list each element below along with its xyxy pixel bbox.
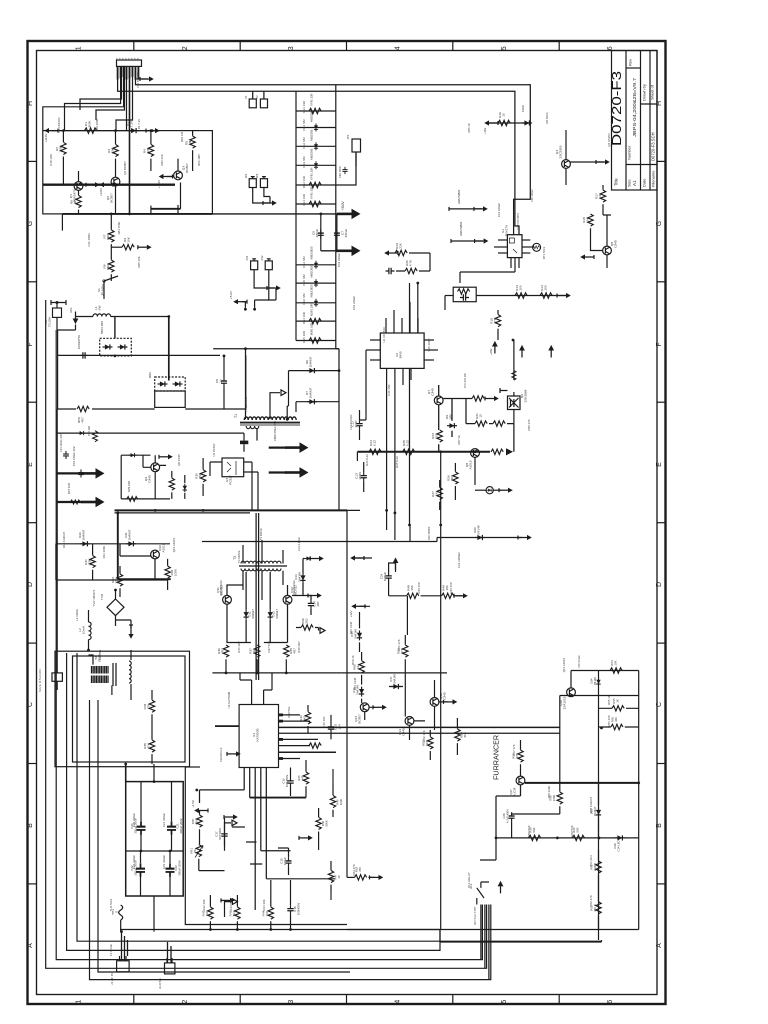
label TH1 [111,909,119,915]
label Q15 [439,692,447,700]
wire cn3 net [269,270,276,300]
title block divider 2 [640,51,642,191]
resistor R31 [90,556,95,568]
wire out sec box [185,766,200,768]
label D1 [126,120,134,127]
label R31 [84,557,92,565]
resistor R47 [328,870,333,882]
svg-text:D15 4148: D15 4148 [349,621,353,634]
capacitor C13 [361,472,367,481]
svg-text:C14 LED: C14 LED [616,840,620,851]
svg-text:A1: A1 [632,180,637,186]
wire l1 leads [76,316,169,318]
capacitor CX inline [80,352,89,358]
connector CN5 body [52,673,62,681]
svg-text:SW: SW [98,305,102,310]
svg-text:R59 56K: R59 56K [527,825,531,836]
label out34 [273,420,277,441]
wire left drop to stby [56,409,58,660]
svg-text:22K: 22K [399,242,403,248]
label CN5 line1 [38,669,42,692]
diode D18 v [596,808,601,818]
transformer T2 primary hatch [92,666,109,683]
wire vr1 leads [199,811,225,871]
svg-text:Filename: Filename [651,170,656,187]
label R55 [612,698,619,704]
connector CN1 pins [117,66,140,79]
label flag q3 [157,180,161,188]
resistor NTC inline [77,406,89,411]
svg-text:R31 100K: R31 100K [102,546,106,559]
wire fuse to flag [57,317,76,355]
label out2 [67,483,71,494]
capacitor C20 big [137,821,146,835]
svg-text:A682O85: A682O85 [310,110,314,122]
diode D6 [307,368,317,373]
title block size value A1 [632,180,637,186]
svg-text:100: 100 [519,285,523,290]
node t1 aux blob [240,441,248,445]
svg-text:Q4 C5353: Q4 C5353 [607,133,611,147]
label R18 [582,216,590,223]
svg-text:R42 10K: R42 10K [202,899,206,910]
label D10 [78,529,86,540]
wire U4 left pin thick [215,725,239,727]
wire d7 wire [296,402,339,412]
svg-text:T1 EER4042: T1 EER4042 [244,397,248,412]
resistor R19 h [395,250,407,255]
svg-text:RL1 RELAY: RL1 RELAY [467,872,471,887]
diode DL8 rung [314,279,318,287]
wire jp2 net [253,188,270,204]
label C7 [341,229,349,238]
title block label Title [614,178,619,186]
wire lower net [210,880,290,930]
resistor R18 [588,214,593,226]
label R25 [402,440,410,446]
svg-text:E: E [27,462,34,467]
box standby inner [73,656,186,762]
label C24 [380,571,387,581]
wire jp3 net [264,188,270,204]
svg-text:C31 100uF 200V: C31 100uF 200V [59,432,63,452]
bridge BR2 body box [155,391,186,407]
svg-text:+5.0V: +5.0V [229,291,233,299]
wire CN6 pins [122,932,128,961]
resistor R2 [61,142,66,154]
resistor RL6 rung [309,201,321,206]
label D20 [473,525,481,534]
wire s5 net [360,606,376,720]
svg-text:1: 1 [76,46,83,50]
wire long vert A [409,283,411,333]
label Q12 [290,585,298,595]
svg-text:G: G [27,221,34,226]
op-amp U2 PWM body [380,333,424,368]
wire fur link [496,785,521,838]
power flag q15 [444,699,458,704]
power flag q2 [99,182,113,187]
power flag q5 base [580,254,594,259]
label R45 [336,799,343,806]
label D8 [521,105,525,112]
wire furr net2 [496,783,639,838]
wire furr box verts [571,671,639,941]
label Q10 [158,543,166,552]
svg-text:Q10 A1015: Q10 A1015 [172,537,176,552]
svg-text:CG5 682: CG5 682 [302,274,306,286]
resistor R53 [455,729,460,741]
title block label Sheet of [650,84,655,100]
resistor R51 [403,645,408,657]
title block label Drawn by [642,84,647,101]
text FURRANCER [492,735,501,780]
label R52 [422,739,430,746]
wire r7-r8 [110,244,112,260]
power flag r91 [485,396,499,401]
label Q11 [216,585,224,595]
svg-text:SX7100V: SX7100V [218,828,222,840]
wire bus1 from CN1 [136,66,531,234]
node AC L [56,301,59,304]
capacitor C61 inline [78,469,83,477]
wire q7 net [439,385,452,452]
wire s1 stub [355,557,372,559]
wire ladder rung 4 [296,164,336,166]
label R40 [299,715,307,721]
label U1 [501,225,509,237]
label D6 [305,356,313,367]
svg-text:R62 470: R62 470 [589,895,593,906]
svg-text:D18 1N4937: D18 1N4937 [589,796,593,813]
wire cap col b [336,214,338,251]
svg-text:R80 300K: R80 300K [95,119,99,132]
power flag s3 [454,593,468,598]
label D24 [590,677,597,685]
capacitor C21 big [167,821,176,835]
resistor R34 [149,700,154,712]
svg-text:3843: 3843 [399,351,403,358]
svg-text:+310V: +310V [341,200,345,210]
capacitor C22 big [136,863,145,877]
node tp2 [253,308,256,311]
wire t1 aux bottom [243,444,245,452]
svg-text:470: 470 [358,867,362,872]
inductor L1 4-bump coil [93,314,111,317]
svg-text:0.22: 0.22 [373,440,377,446]
wire th1 down [120,920,122,932]
label C21 [176,818,183,833]
svg-text:P1: P1 [244,95,248,99]
svg-text:10K: 10K [613,660,617,665]
label CN2 [245,255,249,260]
label R26 [447,475,455,481]
wire l2 leads [88,610,90,650]
wire U1 pins left [494,240,507,253]
label Q17 [509,787,516,796]
diode D25 vertical aux [183,484,187,493]
svg-text:C40 100uF: C40 100uF [530,189,534,202]
svg-text:TNY279: TNY279 [505,225,509,237]
wire s2 stub [395,563,397,572]
wire tvr leads [115,590,117,626]
label Q5 [610,240,618,248]
capacitor C30 [342,167,347,174]
label T1 [234,414,238,418]
label CX [77,335,81,349]
capacitor C18 [287,905,293,914]
label D16 [352,685,359,695]
transistor Q12 [283,595,292,604]
wire rail left bend [356,452,358,461]
resistor R35 [149,740,154,752]
thermistor TH1 wiggle [119,905,123,920]
svg-text:4.7uF 450V: 4.7uF 450V [505,809,509,823]
wire bulk bottom drop [153,896,155,932]
label C15 [334,724,342,730]
connector P1 body [249,91,256,108]
svg-text:R29 33R: R29 33R [127,481,131,492]
svg-text:ACL: ACL [69,307,73,313]
svg-text:2: 2 [182,1000,189,1004]
svg-text:100: 100 [544,285,548,290]
diode D17 h [391,684,401,689]
svg-text:R83 1M5: R83 1M5 [197,154,201,166]
power flag jp pair [263,200,277,205]
wire CN1 pin7 drop [116,66,133,130]
power flag vr chain [194,808,208,813]
svg-text:A682O85: A682O85 [310,148,314,160]
power flag tvr [128,625,133,639]
power flag cn2 [267,285,281,290]
op-amp U4 body [239,705,278,768]
zone numbers top [76,46,615,50]
power flag pp1 [310,556,324,561]
label rung 6 [310,186,314,198]
label Q3 [182,163,190,173]
svg-text:C30 100N: C30 100N [338,166,342,178]
label C22 [130,860,137,875]
connector JP3 body [260,177,267,188]
svg-text:Q11 BCR22: Q11 BCR22 [219,580,223,596]
label scatter10 [577,655,581,668]
label R44 [262,910,270,917]
op-amp U1 switcher body [507,235,522,258]
svg-text:C50 470uF: C50 470uF [577,655,581,668]
svg-text:R52 10K: R52 10K [422,730,426,741]
svg-text:R85 10K: R85 10K [137,256,141,267]
label C23 [174,860,181,875]
sheet border inner [37,51,658,995]
power flag out3 thick [285,443,308,452]
resistor Rclamp in box [458,289,470,294]
svg-text:BR2: BR2 [148,372,152,378]
svg-text:47: 47 [73,200,77,204]
wire gate wires [466,410,514,424]
bridge BR2 dashed box [155,377,186,391]
label R7 [103,232,111,240]
svg-text:10: 10 [502,113,506,117]
diode D4 in BR2 [158,381,168,386]
svg-text:CG4 682: CG4 682 [302,256,306,268]
svg-text:1N4937: 1N4937 [593,806,597,816]
zone letters left [27,101,34,948]
label R65 [191,818,198,825]
wire T1 right diode wire [287,371,339,406]
transformer T3 winding bottom [241,569,281,571]
thermistor RT1 [533,243,541,251]
diode D13 [268,610,273,620]
diode DL9 rung [314,299,318,307]
svg-text:Rev: Rev [628,59,633,66]
svg-text:B4148: B4148 [593,677,597,685]
diode D20 inline [475,535,485,540]
transformer T3 core [239,565,287,567]
label scatter7 [427,526,431,540]
label BR1 [100,321,104,334]
svg-text:48V 5mA STBY: 48V 5mA STBY [473,906,477,925]
svg-text:A682 M883: A682 M883 [459,221,463,236]
label D15 [350,629,357,639]
svg-text:470 R: 470 R [593,904,597,911]
wire s6 net [389,635,425,740]
label rung 8 [310,265,314,278]
wire opto links [210,462,258,510]
svg-text:6: 6 [607,1000,614,1004]
svg-text:R36 4R7: R36 4R7 [237,641,241,653]
resistor R30 [200,470,205,482]
resistor R38 [284,645,289,657]
resistor R14 inline [540,293,552,298]
transistor Q17 [516,776,525,785]
title block label Number [627,145,632,160]
label R42 [202,910,210,917]
label pp1 [297,537,301,551]
resistor R55 h [612,706,624,711]
svg-text:C42 220uF: C42 220uF [352,296,356,311]
LED DL1 [486,487,493,494]
svg-text:1M: 1M [188,140,192,145]
svg-text:T3 DRIVE: T3 DRIVE [259,528,263,540]
wire q5 wires [591,215,612,251]
power flag d20 [518,535,532,540]
svg-text:C46 1NF: C46 1NF [387,384,391,396]
svg-text:F06A: F06A [521,105,525,112]
wire out3 tail [269,447,286,449]
label scatter2 [530,189,534,202]
svg-text:A: A [656,943,663,948]
title block label Date [642,178,647,187]
label rung 1 [310,93,314,105]
resistor R16 inline [498,120,510,125]
zone ticks bottom margin [134,995,559,1005]
svg-text:U1 TNY279PN: U1 TNY279PN [516,213,520,230]
wire primary bus thick 2 [115,512,251,514]
resistor R28 [169,478,174,490]
wire CN1 pin8 stub [136,66,148,79]
wire CN1 pin5 drop [126,66,128,130]
svg-text:KY91 33R: KY91 33R [310,186,314,198]
svg-text:B: B [656,823,663,828]
resistor R24 inline rail [369,449,381,454]
svg-text:C600 470uF 25V: C600 470uF 25V [273,420,277,441]
diode D15b inline [305,556,313,560]
power flag neth1 [474,206,488,211]
svg-text:A: A [27,943,34,948]
wire r17 leads [602,185,604,215]
svg-text:D8 F06A: D8 F06A [545,112,549,123]
wire drop from box [61,214,63,231]
label scatter4 [244,397,248,412]
svg-text:R37 560: R37 560 [267,641,271,652]
label R43 [229,910,237,916]
wire ac stubs [51,300,66,308]
svg-text:100N: 100N [358,472,362,479]
power flag aux [159,454,173,459]
svg-text:R63 470: R63 470 [352,864,356,875]
svg-text:JBPS-04,200&28=V9.7: JBPS-04,200&28=V9.7 [632,77,637,137]
resistor R13 inline [515,293,527,298]
svg-text:R43 5K1: R43 5K1 [229,899,233,911]
svg-text:RG1 33R: RG1 33R [302,101,306,113]
svg-text:1N4937: 1N4937 [309,356,313,367]
resistor R54 h top [610,668,622,673]
svg-text:C21 0.68uF: C21 0.68uF [297,537,301,551]
label CN7 [158,978,162,989]
resistor R29 [127,496,138,501]
wire ladder rung 2 [296,127,336,129]
wire long vert x440 [440,525,442,680]
label R40b [297,775,304,781]
svg-text:C12 471/1KV: C12 471/1KV [349,414,353,430]
wire corner open arrow 2 [225,902,232,917]
label rung 4 [310,148,314,160]
svg-text:4R7: 4R7 [81,417,85,423]
power flag +5V T [233,299,247,304]
connector CN3 body [265,259,272,270]
svg-text:B: B [27,823,34,828]
svg-text:3: 3 [288,46,295,50]
wire T1 open-arrow net [270,393,280,420]
svg-text:1N4937: 1N4937 [251,609,255,619]
wire q5 emitter [606,255,608,268]
wire s23 net [389,563,462,596]
label rung 10 [310,303,314,315]
label U2 [395,351,403,358]
label R53 [460,732,468,738]
svg-text:D10 1N4937: D10 1N4937 [62,531,66,548]
svg-text:150K: 150K [106,262,110,270]
transistor Q14 [405,717,414,726]
svg-text:Sheet of: Sheet of [650,84,655,100]
wire furr thick rail [525,782,639,784]
power flag mc [384,250,398,255]
resistor R65 [197,815,202,827]
svg-text:C40 10N: C40 10N [49,154,53,165]
diode D12 [244,610,249,620]
junction dots set A [62,129,340,420]
label Q16 [559,696,567,709]
wire sec box left [185,767,347,925]
label S1 [97,284,105,296]
svg-text:1N4148: 1N4148 [297,572,301,582]
resistor R37 [255,645,260,657]
resistor R3 [113,144,118,156]
wire q2 vert links [116,186,179,214]
transistor Q5 [603,246,612,255]
wire thick pin2 link [250,797,306,799]
wire U2 left pins [366,340,380,360]
